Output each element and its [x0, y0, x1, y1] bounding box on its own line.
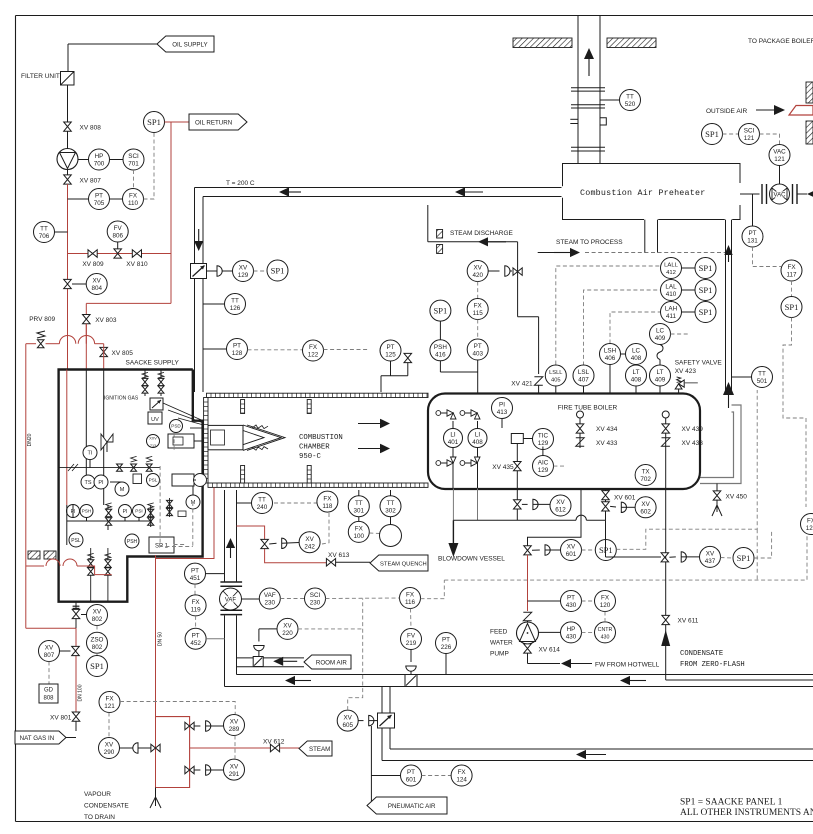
wire XV129-SP1 dashed	[254, 270, 268, 272]
svg-text:XV 613: XV 613	[328, 552, 350, 559]
arrow room air	[273, 657, 297, 666]
valve train 2	[148, 503, 154, 527]
svg-text:TX: TX	[642, 469, 651, 476]
instrument FX120	[595, 591, 616, 612]
svg-text:TS: TS	[84, 480, 91, 486]
svg-text:AIC: AIC	[538, 460, 549, 467]
wire PT131-FX117 dashed	[753, 247, 782, 267]
wire LAH-SP1	[682, 311, 696, 313]
instrument TT501	[732, 367, 773, 388]
wire TT126 stub	[203, 303, 225, 305]
svg-text:LT: LT	[657, 369, 664, 376]
valve XV438	[662, 438, 704, 447]
arrow duct flow 3	[576, 750, 606, 759]
wall column 1 top	[241, 400, 245, 414]
svg-text:XV 450: XV 450	[726, 494, 748, 501]
arrow riser up 2	[723, 382, 734, 408]
svg-text:452: 452	[190, 640, 201, 647]
svg-text:405: 405	[551, 378, 561, 384]
valve VAF butterfly	[220, 588, 242, 610]
arrow flow left 2	[455, 187, 483, 196]
svg-text:SAFETY VALVE: SAFETY VALVE	[675, 359, 723, 366]
instrument AIC129	[533, 456, 554, 477]
svg-text:700: 700	[94, 161, 105, 168]
svg-text:CNTR: CNTR	[598, 627, 613, 633]
wire FX100 dashed	[369, 532, 380, 535]
wire HP700-SCI701	[110, 159, 124, 161]
label SAACKE SUPPLY	[126, 360, 180, 367]
instrument LI408	[468, 421, 487, 462]
wire steam to process	[538, 252, 726, 254]
valve VAC butterfly	[770, 184, 790, 204]
svg-text:LI: LI	[475, 432, 481, 439]
pennant ROOM AIR	[304, 655, 351, 669]
svg-text:STEAM DISCHARGE: STEAM DISCHARGE	[450, 230, 514, 237]
svg-text:XV: XV	[92, 278, 101, 285]
svg-text:PT: PT	[567, 595, 575, 602]
instrument PT128	[227, 339, 248, 360]
instrument LT409	[650, 365, 671, 394]
instrument LAH411	[661, 302, 682, 323]
label BLOWDOWN VESSEL	[438, 556, 505, 563]
svg-text:TO DRAIN: TO DRAIN	[84, 814, 115, 821]
valve ignition pair 1	[142, 370, 148, 397]
instrument FV806	[107, 221, 128, 242]
svg-text:420: 420	[472, 272, 483, 279]
duct main horizontal	[225, 675, 813, 687]
duct branch down	[382, 687, 390, 761]
svg-text:PT: PT	[407, 769, 415, 776]
instrument M1	[110, 482, 129, 496]
label DN100	[78, 684, 84, 701]
valve XV807	[64, 170, 101, 185]
equipment saacke supply box	[59, 370, 203, 602]
valve XV601b	[524, 546, 532, 555]
svg-text:SP1: SP1	[705, 129, 719, 139]
instrument XV602	[635, 497, 656, 518]
wire prv left drop red	[26, 344, 76, 629]
label CONDENSATE	[680, 650, 745, 669]
svg-text:XV 434: XV 434	[596, 426, 618, 433]
wire VAF-SCI dashed	[280, 598, 304, 600]
svg-text:PT: PT	[474, 343, 482, 350]
instrument SP1 lal	[695, 280, 716, 301]
svg-text:SP1 = SAACKE PANEL 1: SP1 = SAACKE PANEL 1	[680, 798, 783, 808]
burner flame	[243, 425, 285, 450]
wall chamber top	[207, 393, 429, 397]
svg-text:TIC: TIC	[538, 433, 549, 440]
wire right dashed bus	[783, 318, 806, 508]
arrow chamber flow 2	[358, 444, 390, 454]
svg-text:XV 803: XV 803	[95, 317, 117, 324]
svg-text:122: 122	[308, 352, 319, 359]
svg-text:FW FROM HOTWELL: FW FROM HOTWELL	[595, 662, 660, 669]
valve XV611	[662, 615, 699, 624]
instrument SP1 xv129	[267, 260, 288, 281]
actuator FV219	[406, 666, 416, 674]
svg-text:SP1: SP1	[785, 302, 799, 312]
valve train oil gun	[167, 498, 186, 517]
wire LALL dashed feed	[556, 266, 661, 365]
pennant STEAM QUENCH	[370, 555, 428, 571]
svg-text:XV: XV	[230, 719, 239, 726]
instrument PT131	[742, 194, 763, 247]
svg-text:IGNITION GAS: IGNITION GAS	[104, 396, 139, 402]
svg-text:301: 301	[354, 507, 365, 514]
svg-text:110: 110	[128, 200, 139, 207]
arrow duct flow 2	[620, 676, 646, 685]
instrument XV290	[99, 738, 120, 759]
svg-text:FX: FX	[192, 599, 201, 606]
svg-text:701: 701	[128, 161, 139, 168]
svg-text:SP1: SP1	[699, 263, 713, 273]
label STEAM DISCHARGE	[450, 230, 514, 237]
flange VAF bottom	[220, 610, 242, 614]
wire PT705-FX110	[110, 198, 123, 200]
instrument TT126	[225, 294, 246, 315]
valve cluster mid	[59, 456, 160, 471]
svg-text:FX: FX	[474, 303, 483, 310]
valve PT125 isolation	[404, 353, 412, 362]
svg-text:TT: TT	[355, 500, 363, 507]
svg-text:408: 408	[472, 439, 483, 446]
svg-text:BLOWDOWN VESSEL: BLOWDOWN VESSEL	[438, 556, 505, 563]
svg-text:SCI: SCI	[744, 128, 755, 135]
instrument XV802	[81, 605, 108, 626]
label OUTSIDE AIR	[706, 108, 747, 115]
wire dashed panel loop B	[444, 536, 807, 580]
wire box dashed bus	[160, 433, 193, 547]
instrument HP700	[89, 149, 110, 170]
damper XV605	[378, 713, 395, 728]
instrument XV291	[224, 759, 245, 780]
svg-text:116: 116	[405, 599, 416, 606]
svg-text:407: 407	[578, 377, 589, 384]
wire steam out red	[190, 747, 271, 749]
svg-text:XV: XV	[283, 623, 292, 630]
valve XV291	[185, 765, 224, 775]
svg-text:131: 131	[747, 238, 758, 245]
instrument FX118	[317, 491, 338, 512]
valve PRV809	[37, 331, 45, 348]
regulator box	[150, 398, 163, 410]
hatch wall pen left 1	[28, 551, 40, 559]
svg-text:802: 802	[92, 644, 103, 651]
svg-text:XV: XV	[706, 551, 715, 558]
label FIRE TUBE BOILER	[558, 405, 618, 412]
valve XV807b	[60, 646, 80, 655]
wire FX122-PT125 dashed	[324, 349, 370, 351]
wire steam discharge	[428, 205, 518, 242]
valve angle ign	[101, 434, 113, 452]
svg-text:520: 520	[625, 101, 636, 108]
svg-text:XV 801: XV 801	[50, 715, 72, 722]
arrow chamber flow 1	[358, 419, 390, 429]
valve XV612	[514, 499, 550, 509]
wire box feed lines	[67, 370, 104, 506]
wire LI drop	[453, 462, 478, 489]
instrument PSH c	[125, 534, 139, 548]
svg-text:PT: PT	[442, 637, 450, 644]
svg-text:VAF: VAF	[264, 592, 276, 599]
valve XV420 body	[513, 268, 522, 276]
instrument SP1 xv437	[733, 548, 754, 569]
svg-text:HP: HP	[95, 153, 104, 160]
svg-text:226: 226	[441, 644, 452, 651]
svg-text:TT: TT	[40, 226, 48, 233]
svg-text:DN 100: DN 100	[78, 684, 84, 701]
label DN50	[158, 632, 164, 646]
svg-text:SP1: SP1	[147, 117, 161, 127]
wire TT240-FX118 dashed	[274, 502, 317, 504]
label XV421	[511, 381, 533, 388]
flange VAF top	[220, 582, 242, 586]
wire XV601-SP1 dashed	[582, 549, 596, 551]
wire condensate main	[606, 489, 666, 680]
wire condensate return	[666, 679, 813, 681]
instrument FX124	[451, 765, 472, 786]
svg-text:100: 100	[354, 533, 365, 540]
svg-text:XV 423: XV 423	[675, 368, 697, 375]
svg-text:413: 413	[497, 409, 508, 416]
svg-text:XV 809: XV 809	[82, 261, 104, 268]
instrument FX116	[400, 588, 421, 609]
hatch coil right edge top	[806, 82, 813, 103]
wire LSH-LC408	[621, 353, 626, 355]
wire natgas vertical	[73, 602, 80, 731]
arrow duct up	[226, 538, 235, 558]
wire FX110-SP1 dashed	[144, 133, 155, 200]
wire FX116 dashed	[326, 580, 445, 628]
arrow air in	[797, 189, 813, 198]
svg-text:XV: XV	[567, 544, 576, 551]
instrument XV242	[299, 532, 320, 553]
instrument VAC121	[769, 145, 790, 166]
instrument SP1 fx117	[781, 297, 802, 318]
vent XV439	[662, 411, 669, 489]
svg-text:408: 408	[631, 355, 642, 362]
instrument FX110	[123, 189, 144, 210]
valve XV801	[50, 712, 80, 722]
hatch stack right	[607, 38, 656, 48]
sensor well TIC	[511, 434, 532, 444]
svg-text:121: 121	[744, 135, 755, 142]
svg-text:XV 810: XV 810	[126, 261, 148, 268]
stack bracket	[570, 118, 606, 125]
wire dashed panel loop	[616, 390, 757, 580]
svg-text:PNEUMATIC AIR: PNEUMATIC AIR	[388, 803, 436, 810]
wire LSH drop	[609, 365, 611, 394]
wire XV220 stem	[259, 629, 277, 642]
wire oil return vertical red	[86, 122, 171, 344]
wire PT125 drop	[381, 361, 408, 392]
wire boiler drains	[453, 489, 477, 521]
wire FV806 stem	[117, 242, 119, 249]
svg-text:PSD: PSD	[171, 424, 181, 429]
valve train 3	[88, 548, 94, 602]
pipe boiler loop grey	[700, 405, 741, 484]
arrow flow left 1	[279, 187, 301, 196]
svg-text:411: 411	[666, 313, 677, 320]
wire LC409 trap	[657, 345, 663, 366]
valve train 4	[105, 548, 111, 602]
arrow condensate up	[661, 630, 670, 646]
wire fw riser top	[528, 489, 582, 546]
instrument TT520	[600, 90, 641, 111]
arrow riser up 1	[724, 245, 732, 262]
damper fv219	[405, 675, 417, 687]
pipe steam riser	[726, 220, 732, 394]
svg-text:121: 121	[774, 156, 785, 163]
wire XV605 dashed	[348, 599, 363, 711]
svg-text:PT: PT	[386, 344, 394, 351]
instrument TT302	[380, 490, 401, 517]
svg-text:219: 219	[406, 640, 417, 647]
svg-text:XV 601: XV 601	[614, 495, 636, 502]
svg-text:PUMP: PUMP	[490, 651, 509, 658]
wire LAL-SP1	[682, 289, 696, 291]
wire XV450 drop	[716, 484, 718, 493]
actuator XV242	[269, 538, 299, 548]
svg-text:401: 401	[448, 439, 459, 446]
valve fw check	[523, 612, 531, 622]
svg-text:118: 118	[322, 503, 333, 510]
instrument LSLL405	[545, 365, 566, 394]
svg-text:ROOM AIR: ROOM AIR	[316, 659, 347, 666]
manifold red	[156, 717, 190, 788]
svg-text:115: 115	[473, 310, 484, 317]
gauge taps LI top	[436, 410, 480, 419]
svg-text:601: 601	[406, 777, 417, 784]
wire FX115-PT403 dashed	[477, 320, 479, 340]
instrument FX123	[801, 514, 813, 535]
svg-text:302: 302	[385, 507, 396, 514]
wire blowdown header	[453, 511, 605, 520]
damper XV129	[191, 264, 207, 279]
svg-text:612: 612	[555, 507, 566, 514]
actuator XV437	[669, 552, 699, 562]
stack flange 1	[571, 88, 605, 91]
wire FX119-PT452 dashed	[195, 616, 197, 628]
valve XV802	[72, 609, 80, 618]
instrument XV437	[700, 546, 721, 567]
svg-text:M: M	[120, 487, 125, 493]
svg-text:605: 605	[342, 722, 353, 729]
valve XV808	[64, 122, 101, 132]
svg-text:DN20: DN20	[27, 433, 33, 446]
valve train 1	[105, 503, 111, 525]
damper room air	[253, 657, 263, 667]
wire oil supply	[68, 44, 157, 71]
arrow steam to process	[554, 248, 580, 257]
svg-text:CONDENSATE: CONDENSATE	[680, 650, 723, 658]
label Combustion Air Preheater	[580, 188, 705, 198]
svg-text:LC: LC	[656, 328, 665, 335]
svg-text:XV 438: XV 438	[682, 440, 704, 447]
stack flange 3	[571, 147, 605, 151]
svg-text:XV 807: XV 807	[80, 178, 102, 185]
svg-text:230: 230	[310, 600, 321, 607]
svg-text:XV: XV	[305, 536, 314, 543]
filter unit F1	[61, 72, 75, 86]
arrow duct flow 1	[285, 676, 311, 685]
instrument HP430	[539, 622, 582, 643]
instrument PSD	[170, 420, 183, 433]
instrument FX121	[99, 692, 120, 713]
stack flange 2	[571, 105, 605, 108]
wall column 2 top	[307, 400, 311, 414]
svg-text:LI: LI	[450, 432, 456, 439]
wire preheater to damper	[740, 193, 760, 195]
svg-text:STEAM: STEAM	[309, 746, 330, 753]
svg-text:PT: PT	[95, 193, 103, 200]
instrument TS	[81, 475, 95, 489]
wire FX117-SP1 dashed	[791, 281, 793, 297]
svg-text:DN 50: DN 50	[158, 632, 164, 646]
wall column 1 bottom	[241, 466, 245, 484]
valve XV423 safety	[675, 377, 698, 394]
arrow stack up	[584, 48, 594, 76]
svg-text:807: 807	[44, 652, 55, 659]
hatch coil right edge bottom	[806, 121, 813, 144]
svg-text:OIL RETURN: OIL RETURN	[195, 119, 232, 126]
instrument TT240	[237, 493, 273, 514]
svg-text:408: 408	[631, 377, 642, 384]
instrument SP1 lah	[695, 302, 716, 323]
svg-text:FX: FX	[355, 526, 364, 533]
svg-text:XV: XV	[230, 763, 239, 770]
uv detector box	[148, 412, 162, 424]
svg-text:230: 230	[265, 600, 276, 607]
drain Y xv450	[712, 500, 722, 517]
instrument PSH b	[80, 505, 93, 518]
instrument PT125	[380, 340, 401, 361]
label TO PACKAGE BOILER	[748, 38, 813, 45]
svg-text:PRV 809: PRV 809	[29, 316, 55, 323]
instrument LC409	[650, 324, 671, 345]
wire PT705 stub	[68, 198, 89, 200]
hatch wall pen bot	[437, 245, 443, 254]
svg-text:OUTSIDE AIR: OUTSIDE AIR	[706, 108, 747, 115]
valve XV601 pair	[602, 491, 636, 511]
wire damper-act	[207, 270, 218, 272]
svg-text:LSL: LSL	[578, 369, 590, 376]
svg-text:T = 200 C: T = 200 C	[226, 180, 255, 187]
svg-text:117: 117	[786, 272, 797, 279]
svg-text:126: 126	[230, 305, 241, 312]
svg-text:Combustion Air Preheater: Combustion Air Preheater	[580, 188, 705, 198]
panel SP1 box	[149, 537, 174, 553]
svg-text:SP1: SP1	[271, 266, 285, 276]
svg-text:SP1: SP1	[90, 661, 104, 671]
wire ZSO dashed	[96, 626, 98, 633]
valve XV805	[100, 347, 133, 357]
svg-text:XV 421: XV 421	[511, 381, 533, 388]
wire fw suction	[528, 653, 561, 664]
svg-text:VAC: VAC	[773, 149, 786, 156]
wire SP1-SCI121 dashed	[723, 133, 739, 135]
svg-text:FX: FX	[309, 344, 318, 351]
wire FV219 stem	[410, 650, 412, 663]
actuator XV601b	[532, 545, 561, 555]
pennant NAT GAS IN	[15, 731, 76, 744]
wire oil line XV809 red	[68, 253, 172, 255]
pennant OIL RETURN	[189, 114, 247, 130]
svg-text:PSI: PSI	[135, 509, 142, 514]
wire gas manifold	[67, 505, 152, 546]
pennant PNEUMATIC AIR	[367, 797, 447, 814]
wire PT128 stub	[203, 348, 227, 350]
